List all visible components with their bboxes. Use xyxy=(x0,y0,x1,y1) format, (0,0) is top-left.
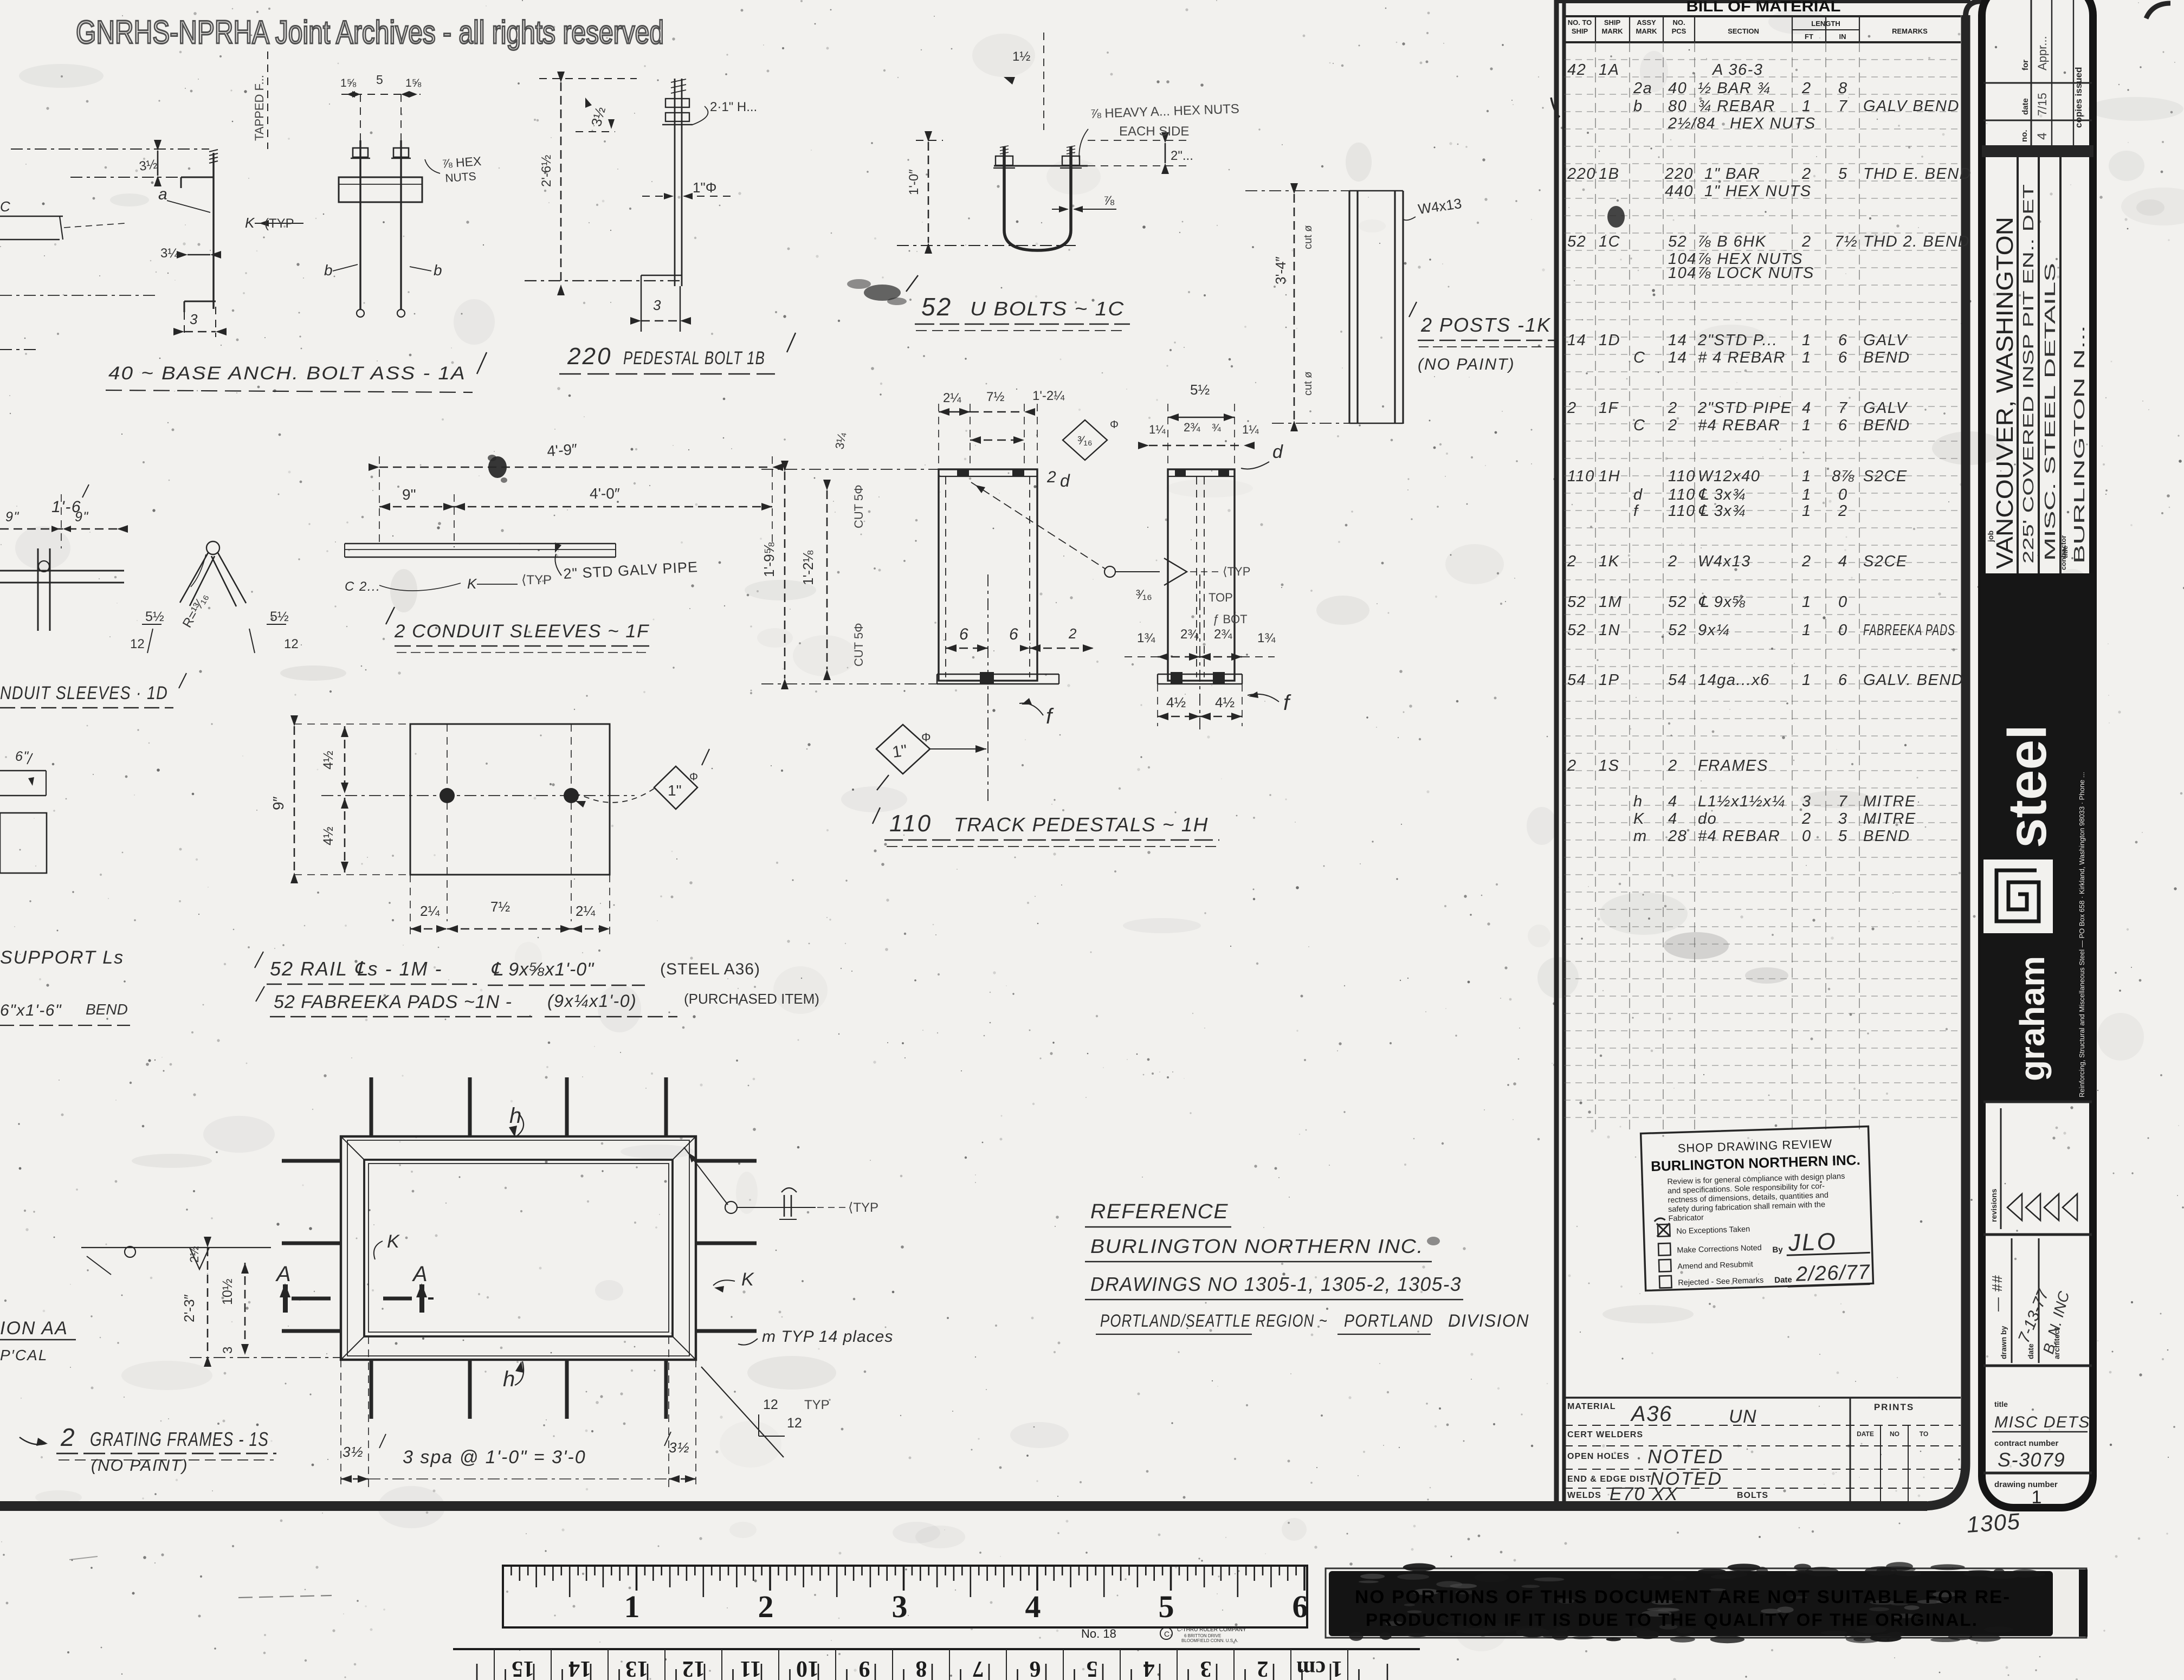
svg-text:52: 52 xyxy=(1567,593,1586,611)
svg-text:110: 110 xyxy=(1567,468,1595,485)
svg-text:DATE: DATE xyxy=(1857,1430,1874,1438)
svg-text:1½: 1½ xyxy=(1012,49,1030,64)
svg-text:K: K xyxy=(245,215,255,231)
svg-text:3½: 3½ xyxy=(343,1444,364,1460)
svg-text:9": 9" xyxy=(402,486,416,503)
svg-text:2"STD PIPE: 2"STD PIPE xyxy=(1697,399,1792,417)
svg-text:PRODUCTION IF IT IS DUE TO THE: PRODUCTION IF IT IS DUE TO THE QUALITY O… xyxy=(1366,1610,1978,1630)
svg-text:4: 4 xyxy=(1668,810,1678,828)
svg-text:2a: 2a xyxy=(1633,80,1652,97)
svg-text:2: 2 xyxy=(1801,810,1812,828)
svg-text:a: a xyxy=(158,185,168,203)
svg-text:110: 110 xyxy=(889,810,932,837)
svg-text:℄ 9x⅝: ℄ 9x⅝ xyxy=(1698,593,1746,611)
svg-text:d: d xyxy=(1272,442,1283,462)
svg-text:28: 28 xyxy=(1668,828,1687,845)
svg-text:1⅝: 1⅝ xyxy=(405,77,422,89)
svg-text:date: date xyxy=(2026,1343,2035,1359)
svg-text:NO.: NO. xyxy=(1672,18,1685,27)
svg-text:MATERIAL: MATERIAL xyxy=(1567,1402,1616,1411)
svg-text:1D: 1D xyxy=(1599,332,1620,349)
svg-text:12: 12 xyxy=(787,1416,802,1431)
svg-text:1H: 1H xyxy=(1599,468,1620,485)
svg-text:³⁄₁₆: ³⁄₁₆ xyxy=(1136,587,1152,602)
svg-text:2¾: 2¾ xyxy=(1214,627,1232,642)
svg-text:1¾: 1¾ xyxy=(1137,631,1155,645)
svg-text:3 spa @ 1'-0" = 3'-0: 3 spa @ 1'-0" = 3'-0 xyxy=(403,1447,586,1468)
svg-text:2: 2 xyxy=(1801,233,1812,250)
svg-text:4: 4 xyxy=(1802,399,1812,417)
svg-text:6: 6 xyxy=(1838,349,1848,366)
svg-text:52: 52 xyxy=(1668,233,1687,250)
svg-text:THD E. BEND: THD E. BEND xyxy=(1863,165,1972,183)
svg-text:10½: 10½ xyxy=(220,1278,235,1305)
svg-text:C 2...: C 2... xyxy=(345,579,380,594)
svg-text:VANCOUVER, WASHINGTON: VANCOUVER, WASHINGTON xyxy=(1992,217,2018,569)
svg-text:2: 2 xyxy=(1567,399,1577,417)
svg-text:9": 9" xyxy=(75,509,89,525)
svg-text:7: 7 xyxy=(1838,98,1848,115)
svg-text:1M: 1M xyxy=(1599,593,1622,611)
svg-text:440: 440 xyxy=(1665,183,1694,200)
svg-text:3½: 3½ xyxy=(669,1439,690,1456)
svg-text:⟨TYP: ⟨TYP xyxy=(521,573,552,587)
svg-text:1: 1 xyxy=(1802,349,1812,366)
svg-text:4: 4 xyxy=(2035,133,2050,140)
svg-text:1⅝: 1⅝ xyxy=(340,77,357,89)
svg-text:Φ: Φ xyxy=(921,731,931,744)
svg-text:Date: Date xyxy=(1774,1275,1792,1285)
svg-text:GRATING FRAMES - 1S: GRATING FRAMES - 1S xyxy=(90,1428,269,1450)
svg-text:14: 14 xyxy=(568,1656,591,1680)
svg-text:5: 5 xyxy=(1159,1589,1174,1624)
svg-text:52: 52 xyxy=(1668,593,1687,611)
svg-text:2: 2 xyxy=(60,1423,75,1451)
svg-text:³⁄₁₆: ³⁄₁₆ xyxy=(1077,434,1092,447)
svg-text:GALV BEND: GALV BEND xyxy=(1863,98,1960,115)
svg-text:TYP: TYP xyxy=(804,1398,830,1412)
svg-text:for: for xyxy=(2021,60,2030,70)
svg-text:S2CE: S2CE xyxy=(1863,468,1908,485)
svg-text:BURLINGTON NORTHERN INC.: BURLINGTON NORTHERN INC. xyxy=(1090,1235,1424,1257)
svg-text:15: 15 xyxy=(512,1656,534,1680)
svg-text:S2CE: S2CE xyxy=(1863,553,1908,570)
svg-text:2: 2 xyxy=(758,1589,774,1624)
svg-text:C-THRU RULER COMPANY: C-THRU RULER COMPANY xyxy=(1177,1627,1246,1633)
svg-text:drawn by: drawn by xyxy=(1999,1326,2008,1359)
svg-text:b: b xyxy=(1633,98,1643,115)
svg-text:(NO PAINT): (NO PAINT) xyxy=(1418,356,1515,373)
svg-text:1": 1" xyxy=(891,741,908,761)
svg-text:BOLTS: BOLTS xyxy=(1737,1491,1768,1500)
svg-text:3: 3 xyxy=(1838,810,1848,828)
svg-text:2: 2 xyxy=(1567,757,1577,774)
svg-text:4½: 4½ xyxy=(1166,694,1186,710)
svg-text:Φ: Φ xyxy=(1110,419,1119,431)
svg-text:2/26/77: 2/26/77 xyxy=(1795,1261,1871,1285)
svg-text:3½: 3½ xyxy=(138,157,158,174)
svg-text:1: 1 xyxy=(1802,671,1812,689)
svg-text:½ BAR ¾: ½ BAR ¾ xyxy=(1698,80,1771,97)
svg-text:3: 3 xyxy=(1200,1656,1212,1680)
svg-text:m TYP 14 places: m TYP 14 places xyxy=(762,1328,893,1346)
svg-text:TO: TO xyxy=(1920,1430,1928,1438)
svg-text:12: 12 xyxy=(763,1397,778,1412)
svg-text:7/15: 7/15 xyxy=(2036,93,2049,116)
svg-text:1: 1 xyxy=(1802,98,1812,115)
svg-text:2¼: 2¼ xyxy=(420,903,440,919)
svg-text:54: 54 xyxy=(1567,671,1586,689)
svg-text:1: 1 xyxy=(1802,502,1812,520)
svg-text:FT: FT xyxy=(1805,33,1813,41)
svg-text:title: title xyxy=(1994,1400,2008,1408)
svg-text:7½: 7½ xyxy=(986,390,1004,404)
svg-text:1S: 1S xyxy=(1599,757,1619,774)
svg-text:54: 54 xyxy=(1668,671,1687,689)
svg-text:1" BAR: 1" BAR xyxy=(1704,165,1760,183)
svg-text:2: 2 xyxy=(1668,553,1678,570)
svg-text:2"STD P...: 2"STD P... xyxy=(1697,332,1778,349)
svg-text:MARK: MARK xyxy=(1636,27,1658,35)
svg-text:℄ 3x¾: ℄ 3x¾ xyxy=(1698,502,1746,520)
svg-text:1'-2¼: 1'-2¼ xyxy=(1032,389,1065,403)
svg-text:C: C xyxy=(1633,349,1645,366)
svg-text:drawing number: drawing number xyxy=(1994,1480,2058,1489)
svg-text:1¾: 1¾ xyxy=(1257,631,1276,645)
svg-text:CUT 5Φ: CUT 5Φ xyxy=(852,623,865,667)
svg-text:SHIP: SHIP xyxy=(1572,27,1588,35)
svg-text:MISC. STEEL DETAILS: MISC. STEEL DETAILS xyxy=(2041,263,2058,561)
svg-text:MISC DETS: MISC DETS xyxy=(1994,1413,2090,1431)
svg-text:14: 14 xyxy=(1567,332,1586,349)
svg-text:12: 12 xyxy=(130,637,145,651)
svg-text:6: 6 xyxy=(959,625,969,643)
svg-text:⅞: ⅞ xyxy=(1103,193,1115,208)
svg-text:f: f xyxy=(1633,502,1639,520)
svg-text:Appr...: Appr... xyxy=(2036,36,2049,70)
svg-text:5½: 5½ xyxy=(1190,382,1210,398)
svg-text:220: 220 xyxy=(1664,165,1694,183)
svg-text:revisions: revisions xyxy=(1989,1188,1998,1222)
svg-text:# 4 REBAR: # 4 REBAR xyxy=(1698,349,1786,366)
svg-text:PCS: PCS xyxy=(1672,27,1687,35)
svg-text:104: 104 xyxy=(1668,264,1697,282)
svg-text:2¾: 2¾ xyxy=(1184,421,1200,434)
svg-text:52: 52 xyxy=(1668,622,1687,639)
svg-text:A 36-3: A 36-3 xyxy=(1711,61,1763,79)
svg-text:no.: no. xyxy=(2020,130,2029,143)
svg-text:1305: 1305 xyxy=(1966,1508,2021,1537)
svg-text:W4x13: W4x13 xyxy=(1698,553,1751,570)
svg-text:1: 1 xyxy=(1802,593,1812,611)
svg-text:BURLINGTON N...: BURLINGTON N... xyxy=(2071,325,2088,564)
svg-text:NO: NO xyxy=(1890,1430,1899,1438)
svg-text:4½: 4½ xyxy=(321,826,336,845)
svg-text:2½: 2½ xyxy=(188,1246,201,1263)
svg-text:GALV. BEND: GALV. BEND xyxy=(1863,671,1963,689)
svg-text:do: do xyxy=(1698,810,1717,828)
svg-text:GALV: GALV xyxy=(1863,332,1908,349)
svg-text:OPEN HOLES: OPEN HOLES xyxy=(1567,1452,1630,1461)
svg-text:110: 110 xyxy=(1668,468,1696,485)
svg-text:0: 0 xyxy=(1802,828,1812,845)
svg-text:SECTION: SECTION xyxy=(1728,27,1759,35)
svg-text:NOTED: NOTED xyxy=(1647,1445,1724,1468)
svg-text:BEND: BEND xyxy=(1863,828,1910,845)
svg-text:2"...: 2"... xyxy=(1171,148,1193,163)
svg-text:¾ REBAR: ¾ REBAR xyxy=(1698,98,1775,115)
svg-text:U BOLTS ~ 1C: U BOLTS ~ 1C xyxy=(970,298,1125,320)
svg-text:3: 3 xyxy=(1802,793,1812,810)
svg-text:13: 13 xyxy=(625,1656,648,1680)
svg-text:CERT WELDERS: CERT WELDERS xyxy=(1567,1430,1643,1439)
svg-text:ION AA: ION AA xyxy=(0,1318,68,1339)
svg-text:12: 12 xyxy=(284,637,299,651)
svg-text:3: 3 xyxy=(221,1347,235,1354)
svg-text:FRAMES: FRAMES xyxy=(1698,757,1768,774)
svg-text:d: d xyxy=(1633,486,1643,503)
svg-text:14: 14 xyxy=(1668,332,1687,349)
svg-text:2'-6½: 2'-6½ xyxy=(539,155,554,187)
svg-text:⟨TYP: ⟨TYP xyxy=(1223,565,1250,578)
svg-text:JLO: JLO xyxy=(1787,1228,1837,1256)
svg-text:⟨TYP: ⟨TYP xyxy=(848,1200,878,1215)
svg-text:LENGTH: LENGTH xyxy=(1811,20,1840,28)
svg-text:7: 7 xyxy=(1838,793,1848,810)
svg-text:1: 1 xyxy=(1802,486,1812,503)
svg-text:PEDESTAL BOLT 1B: PEDESTAL BOLT 1B xyxy=(623,348,765,369)
svg-text:#4 REBAR: #4 REBAR xyxy=(1698,417,1780,434)
svg-text:1P: 1P xyxy=(1599,671,1619,689)
svg-text:3: 3 xyxy=(892,1589,908,1624)
svg-text:h: h xyxy=(1633,793,1643,810)
svg-text:W12x40: W12x40 xyxy=(1698,468,1760,485)
svg-text:2: 2 xyxy=(1801,553,1812,570)
svg-text:6: 6 xyxy=(1293,1589,1308,1624)
svg-text:A36: A36 xyxy=(1630,1402,1672,1426)
svg-text:contractor: contractor xyxy=(2059,535,2067,570)
svg-text:K: K xyxy=(387,1231,400,1252)
svg-text:1¼: 1¼ xyxy=(1149,423,1166,436)
svg-text:h: h xyxy=(503,1367,516,1391)
svg-text:6 BRITTON DRIVE: 6 BRITTON DRIVE xyxy=(1184,1633,1221,1638)
svg-text:WELDS: WELDS xyxy=(1567,1491,1601,1500)
svg-text:2: 2 xyxy=(1668,757,1678,774)
svg-text:1'-2⅛: 1'-2⅛ xyxy=(800,550,816,585)
svg-text:(TYP: (TYP xyxy=(264,216,294,231)
svg-text:12: 12 xyxy=(682,1656,705,1680)
svg-text:1: 1 xyxy=(1802,417,1812,434)
svg-text:2: 2 xyxy=(1801,165,1812,183)
svg-text:0: 0 xyxy=(1838,622,1848,639)
svg-text:2¼: 2¼ xyxy=(576,903,595,919)
svg-text:80: 80 xyxy=(1668,98,1687,115)
svg-text:— ##: — ## xyxy=(1989,1275,2005,1312)
svg-text:6: 6 xyxy=(1009,625,1019,643)
svg-text:d: d xyxy=(1060,471,1070,490)
svg-text:b: b xyxy=(324,262,333,279)
svg-text:PRINTS: PRINTS xyxy=(1874,1402,1914,1412)
svg-text:1: 1 xyxy=(1802,332,1812,349)
svg-text:2'-3″: 2'-3″ xyxy=(181,1294,197,1322)
svg-text:FABREEKA PADS: FABREEKA PADS xyxy=(1863,622,1955,639)
svg-text:CUT 5Φ: CUT 5Φ xyxy=(852,484,865,528)
svg-text:7: 7 xyxy=(1838,399,1848,417)
svg-text:2: 2 xyxy=(1257,1656,1269,1680)
svg-text:1'-0″: 1'-0″ xyxy=(907,169,921,195)
svg-text:BEND: BEND xyxy=(1863,349,1910,366)
svg-text:110: 110 xyxy=(1668,486,1696,503)
svg-text:ASSY: ASSY xyxy=(1637,18,1656,27)
svg-text:10: 10 xyxy=(796,1656,819,1680)
svg-text:BILL OF MATERIAL: BILL OF MATERIAL xyxy=(1687,0,1841,15)
svg-text:Fabricator: Fabricator xyxy=(1668,1213,1704,1223)
svg-text:1": 1" xyxy=(668,782,682,799)
svg-text:6: 6 xyxy=(1838,671,1848,689)
svg-text:SUPPORT Ls: SUPPORT Ls xyxy=(0,947,124,968)
svg-text:8: 8 xyxy=(1838,80,1848,97)
svg-text:MARK: MARK xyxy=(1602,27,1624,35)
svg-text:110: 110 xyxy=(1668,502,1696,520)
svg-text:6: 6 xyxy=(1838,332,1848,349)
svg-text:#4 REBAR: #4 REBAR xyxy=(1698,828,1780,845)
svg-text:A: A xyxy=(412,1262,428,1286)
svg-text:0: 0 xyxy=(1838,486,1848,503)
svg-text:6: 6 xyxy=(1030,1656,1041,1680)
svg-text:Φ: Φ xyxy=(689,771,698,783)
svg-text:2: 2 xyxy=(1801,80,1812,97)
svg-text:contract number: contract number xyxy=(1994,1439,2059,1448)
svg-text:BLOOMFIELD CONN. U.S.A.: BLOOMFIELD CONN. U.S.A. xyxy=(1181,1638,1238,1643)
svg-text:6"x1'-6": 6"x1'-6" xyxy=(0,1001,62,1019)
svg-text:⅞ B 6HK: ⅞ B 6HK xyxy=(1698,233,1767,250)
svg-text:HEX NUTS: HEX NUTS xyxy=(1730,115,1816,132)
svg-text:1'-9⅝: 1'-9⅝ xyxy=(761,542,777,577)
svg-text:BEND: BEND xyxy=(1863,417,1910,434)
svg-text:END & EDGE DIST: END & EDGE DIST xyxy=(1567,1475,1651,1484)
svg-text:1 cm: 1 cm xyxy=(1296,1656,1342,1680)
svg-text:steel: steel xyxy=(1997,725,2058,848)
svg-text:¾: ¾ xyxy=(1212,422,1221,434)
svg-text:11: 11 xyxy=(740,1656,761,1680)
svg-text:UN: UN xyxy=(1729,1406,1757,1427)
svg-text:5½: 5½ xyxy=(270,609,289,624)
svg-text:5: 5 xyxy=(376,73,383,87)
svg-text:4: 4 xyxy=(1838,553,1848,570)
svg-text:3: 3 xyxy=(190,311,198,327)
svg-text:4½: 4½ xyxy=(1215,694,1235,710)
svg-text:C: C xyxy=(1164,1630,1169,1638)
svg-text:8: 8 xyxy=(916,1656,927,1680)
svg-text:1F: 1F xyxy=(1599,399,1619,417)
svg-text:2: 2 xyxy=(1046,468,1057,486)
svg-text:52: 52 xyxy=(1567,622,1586,639)
svg-text:3: 3 xyxy=(653,297,662,313)
svg-text:2 POSTS -1K: 2 POSTS -1K xyxy=(1420,314,1551,336)
svg-text:9x¼: 9x¼ xyxy=(1698,622,1730,639)
svg-text:52 FABREEKA PADS ~1N -: 52 FABREEKA PADS ~1N - xyxy=(274,992,512,1012)
svg-text:S-3079: S-3079 xyxy=(1998,1449,2065,1471)
svg-text:C: C xyxy=(1633,417,1645,434)
svg-text:40: 40 xyxy=(1668,80,1687,97)
svg-text:2: 2 xyxy=(1567,553,1577,570)
svg-text:4'-9″: 4'-9″ xyxy=(546,441,578,460)
svg-text:2¼: 2¼ xyxy=(943,391,961,405)
svg-text:3'-4″: 3'-4″ xyxy=(1272,256,1289,285)
svg-text:P′CAL: P′CAL xyxy=(0,1347,48,1364)
svg-text:220: 220 xyxy=(567,343,612,370)
svg-text:52: 52 xyxy=(921,293,952,321)
svg-text:E70 XX: E70 XX xyxy=(1610,1484,1678,1504)
svg-text:9: 9 xyxy=(859,1656,870,1680)
svg-text:b: b xyxy=(434,262,443,279)
svg-text:K: K xyxy=(1633,810,1645,828)
svg-text:2: 2 xyxy=(1668,399,1678,417)
svg-text:1"Φ: 1"Φ xyxy=(693,179,716,196)
svg-text:1" HEX NUTS: 1" HEX NUTS xyxy=(1704,183,1812,200)
svg-text:EACH SIDE: EACH SIDE xyxy=(1119,124,1189,139)
svg-text:1: 1 xyxy=(1802,468,1812,485)
svg-text:PORTLAND: PORTLAND xyxy=(1344,1311,1433,1330)
svg-text:IN: IN xyxy=(1839,33,1846,41)
svg-text:No. 18: No. 18 xyxy=(1081,1627,1116,1640)
svg-text:8⅞: 8⅞ xyxy=(1832,468,1855,485)
svg-text:4: 4 xyxy=(1025,1589,1041,1624)
svg-text:1K: 1K xyxy=(1599,553,1620,570)
svg-text:4: 4 xyxy=(1143,1656,1155,1680)
svg-text:TOP: TOP xyxy=(1209,591,1233,604)
svg-text:MITRE: MITRE xyxy=(1863,810,1916,828)
svg-text:7½: 7½ xyxy=(1834,233,1858,250)
svg-text:5½: 5½ xyxy=(145,609,164,624)
svg-text:graham: graham xyxy=(2013,956,2052,1081)
svg-text:1: 1 xyxy=(1802,622,1812,639)
svg-text:7: 7 xyxy=(973,1656,984,1680)
svg-text:copies issued: copies issued xyxy=(2073,67,2084,128)
svg-text:BEND: BEND xyxy=(86,1001,128,1018)
svg-text:(PURCHASED ITEM): (PURCHASED ITEM) xyxy=(684,991,819,1007)
svg-text:REFERENCE: REFERENCE xyxy=(1090,1200,1229,1223)
svg-text:TAPPED F...: TAPPED F... xyxy=(253,75,266,141)
svg-text:7½: 7½ xyxy=(490,899,510,915)
svg-text:REMARKS: REMARKS xyxy=(1892,27,1928,35)
svg-text:0: 0 xyxy=(1838,593,1848,611)
svg-text:2·1" H...: 2·1" H... xyxy=(710,100,757,114)
svg-text:4: 4 xyxy=(1668,793,1678,810)
svg-text:K: K xyxy=(467,576,477,592)
svg-text:5: 5 xyxy=(1838,828,1848,845)
svg-text:1: 1 xyxy=(624,1589,640,1624)
svg-text:C: C xyxy=(0,198,11,215)
svg-text:cut ø: cut ø xyxy=(1302,225,1314,249)
svg-text:℄ 9x⅝x1'-0": ℄ 9x⅝x1'-0" xyxy=(490,959,595,980)
svg-text:5: 5 xyxy=(1087,1656,1098,1680)
svg-text:9": 9" xyxy=(5,509,20,525)
svg-text:NDUIT SLEEVES · 1D: NDUIT SLEEVES · 1D xyxy=(0,683,168,703)
svg-text:SHIP: SHIP xyxy=(1604,18,1621,27)
svg-text:K: K xyxy=(741,1269,754,1290)
svg-text:⅞ HEX: ⅞ HEX xyxy=(442,154,482,171)
svg-text:By: By xyxy=(1772,1245,1783,1255)
svg-text:(STEEL A36): (STEEL A36) xyxy=(660,960,760,978)
svg-text:date: date xyxy=(2021,98,2030,115)
svg-text:⅞ LOCK NUTS: ⅞ LOCK NUTS xyxy=(1698,264,1814,282)
svg-text:DRAWINGS NO 1305-1, 1305-2,: DRAWINGS NO 1305-1, 1305-2, 1305-3 xyxy=(1090,1273,1462,1295)
svg-text:GALV: GALV xyxy=(1863,399,1908,417)
svg-text:40 ~ BASE ANCH. BOLT ASS - 1A: 40 ~ BASE ANCH. BOLT ASS - 1A xyxy=(108,363,466,384)
svg-text:(9x¼x1'-0): (9x¼x1'-0) xyxy=(547,991,637,1011)
svg-text:NO. TO: NO. TO xyxy=(1568,18,1592,27)
